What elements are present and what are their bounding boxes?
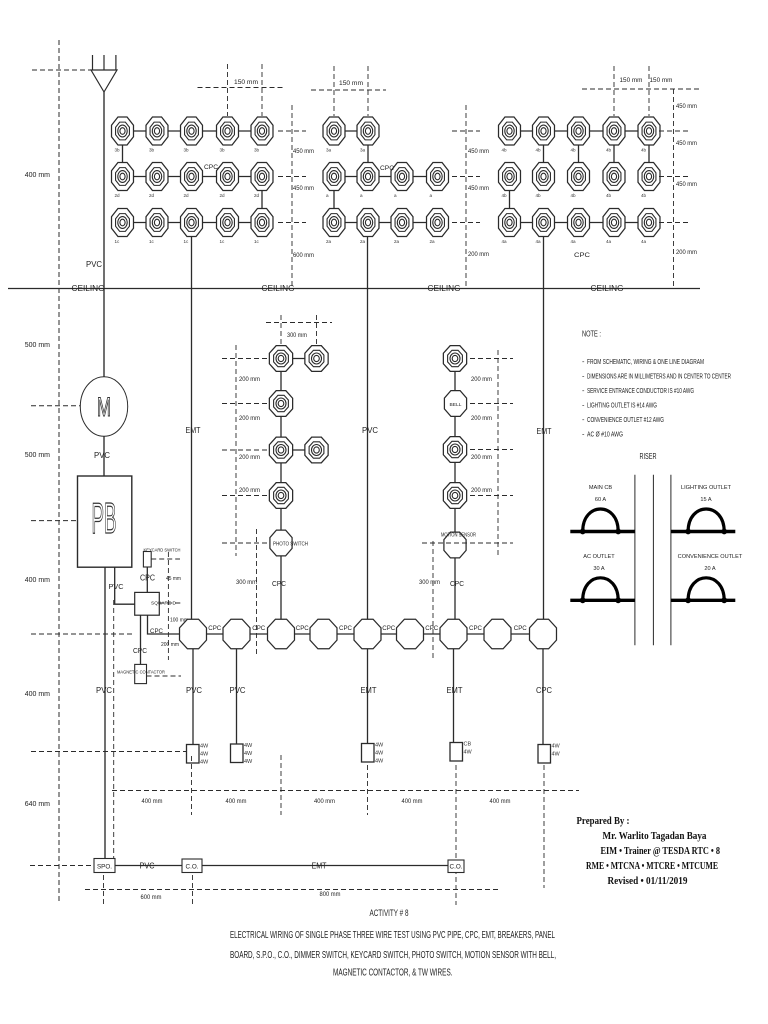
receptacle outlet R2 — [231, 743, 254, 765]
svg-text:4W: 4W — [464, 750, 473, 756]
wire motion sensor to chain — [454, 559, 456, 620]
svg-text:4a: 4a — [536, 239, 542, 244]
dashed dim vertical right of motion chain — [497, 350, 499, 556]
svg-text:CPC: CPC — [296, 626, 310, 632]
wire group3 col2 row1-row2 — [543, 131, 545, 177]
receptacle outlet R4 — [450, 742, 473, 762]
svg-text:2d: 2d — [220, 193, 226, 198]
wire junction chain — [180, 633, 543, 635]
wire group2 row2 — [334, 176, 438, 178]
dashed dim line group3 top — [582, 88, 700, 90]
svg-text:4b: 4b — [641, 148, 647, 153]
lighting outlet G1-R3C2 — [146, 209, 168, 237]
svg-text:600 mm: 600 mm — [141, 894, 162, 901]
wire disconnect to contactor — [140, 615, 142, 664]
wire group2 row3 — [334, 222, 438, 224]
wire photo switch to chain — [280, 557, 282, 620]
svg-text:450 mm: 450 mm — [293, 185, 314, 192]
svg-text:CONVENIENCE OUTLET: CONVENIENCE OUTLET — [678, 554, 743, 560]
svg-text:EMT: EMT — [186, 426, 201, 435]
svg-text:4W: 4W — [244, 743, 253, 749]
svg-text:M: M — [97, 392, 111, 422]
svg-text:a: a — [430, 193, 433, 198]
svg-text:4b: 4b — [571, 148, 577, 153]
panel board PB — [78, 476, 132, 567]
svg-text:SERVICE ENTRANCE CONDUCTOR IS: SERVICE ENTRANCE CONDUCTOR IS #10 AWG — [587, 386, 694, 395]
svg-text:a: a — [326, 193, 329, 198]
riser line 3 — [670, 475, 672, 646]
lighting outlet G3-R1C2 — [533, 117, 555, 145]
svg-text:450 mm: 450 mm — [468, 185, 489, 192]
dashed vertical below motion chain — [432, 541, 434, 660]
lighting outlet G1-R1C3 — [181, 117, 203, 145]
svg-text:300 mm: 300 mm — [236, 579, 257, 586]
keycard switch — [143, 552, 151, 568]
lighting outlet G1-R3C3 — [181, 209, 203, 237]
wire drop CPC at x=543 — [542, 649, 544, 744]
lighting outlet G3-R2C3 — [568, 163, 590, 191]
svg-text:400 mm: 400 mm — [490, 798, 511, 805]
dashed tick group2 right — [452, 176, 480, 178]
svg-text:20 A: 20 A — [704, 566, 715, 572]
lighting outlet G3-R2C2 — [533, 163, 555, 191]
bottom conduit run — [103, 865, 456, 867]
svg-text:150 mm: 150 mm — [620, 78, 643, 84]
surface box SPO — [94, 859, 115, 873]
svg-text:150 mm: 150 mm — [339, 80, 363, 87]
lighting outlet G1-R1C2 — [146, 117, 168, 145]
dashed tick contactor — [147, 675, 182, 677]
kWh meter M — [80, 377, 127, 436]
junction box J2 — [223, 619, 250, 649]
svg-text:4W: 4W — [375, 759, 384, 765]
lighting outlet G1-R1C4 — [217, 117, 239, 145]
svg-text:2d: 2d — [149, 193, 155, 198]
svg-text:400 mm: 400 mm — [25, 172, 50, 179]
dashed tick motion chain — [470, 403, 513, 405]
svg-text:450 mm: 450 mm — [676, 140, 697, 147]
svg-text:3b: 3b — [149, 148, 155, 153]
dashed dim line group2 top — [311, 89, 386, 91]
svg-text:30 A: 30 A — [593, 566, 604, 572]
lighting outlet G2-R2C3 — [391, 163, 413, 191]
lighting outlet G3-R3C2 — [533, 209, 555, 237]
svg-text:C.O.: C.O. — [186, 865, 199, 871]
dashed tick photo chain — [222, 495, 268, 497]
junction box J1 — [180, 619, 207, 649]
svg-text:2a: 2a — [394, 239, 400, 244]
svg-text:500 mm: 500 mm — [25, 452, 50, 459]
svg-text:PVC: PVC — [186, 686, 202, 695]
lighting outlet G3-R3C1 — [499, 209, 521, 237]
dashed dim vertical right of group3 — [673, 89, 675, 288]
svg-text:CEILING: CEILING — [428, 284, 461, 293]
junction box J7 — [440, 619, 467, 649]
wire keycard to disconnect — [146, 567, 148, 592]
riser circuit MAIN CB — [570, 509, 635, 534]
svg-text:2d: 2d — [254, 193, 260, 198]
branch wire PB to disconnect — [115, 567, 135, 604]
svg-text:400 mm: 400 mm — [226, 798, 247, 805]
wire drop EMT at x=367.5 — [367, 649, 369, 744]
wire drop PVC at x=236.5 — [236, 649, 238, 744]
svg-text:EMT: EMT — [447, 686, 463, 695]
svg-text:4W: 4W — [552, 744, 561, 750]
svg-text:200 mm: 200 mm — [676, 249, 697, 256]
lighting outlet G3-R1C1 — [499, 117, 521, 145]
svg-text:2d: 2d — [115, 193, 121, 198]
lighting outlet G1-R3C4 — [217, 209, 239, 237]
svg-text:a: a — [394, 193, 397, 198]
photo switch — [270, 530, 292, 556]
dashed tick — [192, 875, 194, 906]
lighting outlet G1-R3C5 — [251, 209, 273, 237]
svg-text:200 mm: 200 mm — [471, 415, 492, 422]
wire group3 row3 — [510, 222, 650, 224]
svg-text:3b: 3b — [254, 148, 260, 153]
wire group1 row1 — [123, 130, 263, 132]
svg-text:CPC: CPC — [272, 579, 287, 588]
svg-text:CPC: CPC — [133, 648, 147, 655]
riser circuit LIGHTING OUTLET — [671, 509, 735, 534]
dashed tick group3 right — [659, 130, 688, 132]
wire ceiling to meter — [103, 289, 105, 378]
receptacle outlet R5 — [538, 744, 561, 764]
wire group1 row2 — [123, 176, 263, 178]
svg-text:4W: 4W — [244, 759, 253, 765]
lighting outlet G3-R1C3 — [568, 117, 590, 145]
svg-text:150 mm: 150 mm — [234, 79, 258, 86]
svg-text:400 mm: 400 mm — [402, 798, 423, 805]
svg-text:200 mm: 200 mm — [468, 251, 489, 258]
wire meter to panel — [103, 436, 105, 476]
dashed tick at junction chain level — [31, 633, 135, 635]
motion sensor — [444, 532, 466, 558]
svg-text:4b: 4b — [502, 193, 508, 198]
wire photo chain vertical — [280, 359, 282, 530]
svg-text:MAGNETIC CONTACTOR, & TW WIRES: MAGNETIC CONTACTOR, & TW WIRES. — [333, 967, 453, 979]
svg-text:1c: 1c — [254, 239, 260, 244]
dashed vertical above group2 col1 — [333, 66, 335, 116]
svg-text:3a: 3a — [360, 148, 366, 153]
dashed tick keycard — [151, 558, 180, 560]
lighting outlet M-C — [443, 483, 466, 509]
wire disconnect to junction chain — [148, 615, 181, 634]
dashed vertical above group2 col2 — [367, 66, 369, 116]
svg-text:1c: 1c — [115, 239, 121, 244]
riser circuit CONVENIENCE OUTLET — [671, 578, 735, 603]
svg-text:CPC: CPC — [536, 686, 552, 695]
svg-text:RME • MTCNA • MTCRE • MTCUME: RME • MTCNA • MTCRE • MTCUME — [586, 861, 718, 872]
svg-text:CPC: CPC — [380, 165, 394, 172]
lighting outlet G1-R3C1 — [112, 209, 134, 237]
svg-text:CPC: CPC — [150, 628, 164, 635]
dashed dim top photo chain — [280, 315, 282, 346]
svg-text:400 mm: 400 mm — [314, 798, 335, 805]
dashed tick at meter level — [31, 405, 80, 407]
dashed tick at bottom run level — [30, 865, 94, 867]
dashed tick group2 right — [452, 130, 480, 132]
dashed tick motion chain — [470, 495, 513, 497]
dashed tick — [191, 756, 193, 815]
dashed dim vertical left of photo chain — [235, 345, 237, 556]
svg-text:CPC: CPC — [425, 626, 439, 632]
svg-text:4b: 4b — [606, 193, 612, 198]
lighting outlet G2-R1C1 — [323, 117, 345, 145]
svg-text:MOTION SENSOR: MOTION SENSOR — [441, 533, 476, 539]
dashed dim vertical right of group1 — [291, 105, 293, 288]
svg-text:3b: 3b — [184, 148, 190, 153]
lighting outlet G2-R3C3 — [391, 209, 413, 237]
svg-text:450 mm: 450 mm — [676, 181, 697, 188]
svg-text:PVC: PVC — [86, 260, 102, 269]
dashed tick — [367, 765, 369, 815]
dashed tick group1 right — [278, 176, 306, 178]
wire group3 col3 row1-row2 — [578, 131, 580, 177]
left reference dashed vertical — [58, 40, 60, 903]
wire group3 row1 — [510, 130, 650, 132]
dashed vertical above group3 col4 — [613, 66, 615, 116]
wire group3 col5 row1-row2 — [648, 131, 650, 177]
svg-text:200 mm: 200 mm — [161, 642, 179, 648]
lighting outlet G3-R2C4 — [603, 163, 625, 191]
wire group1 row3 — [123, 222, 263, 224]
svg-text:PVC: PVC — [94, 451, 110, 460]
lighting outlet G2-R3C2 — [357, 209, 379, 237]
lighting outlet M-B — [443, 437, 466, 463]
lighting outlet G3-R2C1 — [499, 163, 521, 191]
riser line 1 — [634, 475, 636, 646]
lighting outlet G3-R3C4 — [603, 209, 625, 237]
svg-text:CONVENIENCE OUTLET #12 AWG: CONVENIENCE OUTLET #12 AWG — [587, 415, 664, 424]
svg-text:4a: 4a — [606, 239, 612, 244]
svg-text:4b: 4b — [641, 193, 647, 198]
lighting outlet G2-R3C1 — [323, 209, 345, 237]
svg-text:4a: 4a — [641, 239, 647, 244]
svg-text:CPC: CPC — [204, 164, 218, 171]
svg-text:4b: 4b — [536, 193, 542, 198]
dashed dim vertical right of group2 — [465, 105, 467, 288]
wire group2 row1 — [334, 130, 368, 132]
lighting outlet G3-R1C4 — [603, 117, 625, 145]
weatherhead service entrance — [91, 55, 117, 92]
svg-text:150 mm: 150 mm — [650, 78, 673, 84]
lighting outlet G1-R1C1 — [112, 117, 134, 145]
svg-text:450 mm: 450 mm — [293, 148, 314, 155]
svg-text:EMT: EMT — [312, 862, 327, 871]
svg-text:a: a — [360, 193, 363, 198]
svg-text:500 mm: 500 mm — [25, 342, 50, 349]
dashed tick — [543, 765, 545, 888]
dashed tick — [103, 875, 105, 906]
wire group3 homerun EMT — [543, 223, 545, 620]
svg-text:EMT: EMT — [361, 686, 377, 695]
svg-text:4W: 4W — [375, 751, 384, 757]
lighting outlet G1-R2C1 — [112, 163, 134, 191]
svg-text:EIM • Trainer @ TESDA RTC • 8: EIM • Trainer @ TESDA RTC • 8 — [601, 846, 721, 857]
junction box J6 — [397, 619, 424, 649]
svg-text:PVC: PVC — [140, 862, 155, 871]
svg-text:1c: 1c — [149, 239, 155, 244]
svg-text:200 mm: 200 mm — [471, 376, 492, 383]
disconnect switch box — [135, 592, 160, 615]
surface box CO — [448, 860, 464, 873]
dashed tick motion sensor — [422, 542, 513, 544]
dashed tick at receptacle level — [31, 751, 186, 753]
dashed vertical above group1 col5 — [261, 64, 263, 116]
dashed tick motion chain — [470, 358, 513, 360]
svg-text:PB: PB — [92, 494, 117, 543]
dashed tick at panel board level — [31, 520, 77, 522]
svg-text:800 mm: 800 mm — [320, 891, 341, 898]
svg-text:AC Ø #10 AWG: AC Ø #10 AWG — [587, 430, 623, 439]
svg-text:1c: 1c — [220, 239, 226, 244]
svg-text:2a: 2a — [360, 239, 366, 244]
dashed tick photo chain — [222, 542, 268, 544]
svg-text:4b: 4b — [606, 148, 612, 153]
svg-text:LIGHTING OUTLET: LIGHTING OUTLET — [681, 485, 732, 491]
main feeder wire from PB down — [104, 567, 106, 865]
svg-text:4W: 4W — [200, 744, 209, 750]
svg-text:CPC: CPC — [382, 626, 396, 632]
lighting outlet G3-R1C5 — [638, 117, 660, 145]
svg-text:PVC: PVC — [230, 686, 246, 695]
svg-text:KEYCARD SWITCH: KEYCARD SWITCH — [144, 548, 181, 553]
bell — [444, 391, 466, 417]
lighting outlet G2-R2C2 — [357, 163, 379, 191]
svg-text:4W: 4W — [552, 752, 561, 758]
dashed tick group1 right — [278, 130, 306, 132]
svg-text:LIGHTING OUTLET IS #14 AWG: LIGHTING OUTLET IS #14 AWG — [587, 401, 657, 410]
dashed tick at weatherhead level — [32, 69, 92, 71]
svg-text:4W: 4W — [244, 751, 253, 757]
dashed vertical above group3 col5 — [648, 66, 650, 116]
lighting outlet P-B — [269, 391, 292, 417]
junction box J3 — [268, 619, 295, 649]
dashed vertical near keycard — [167, 552, 169, 660]
svg-text:CEILING: CEILING — [591, 284, 624, 293]
wire group3 col4 row1-row2 — [613, 131, 615, 177]
lighting outlet M-A — [443, 346, 466, 372]
svg-text:2d: 2d — [184, 193, 190, 198]
dashed vertical above group1 col4 — [227, 64, 229, 116]
svg-text:PVC: PVC — [96, 686, 112, 695]
dashed tick photo chain — [222, 449, 268, 451]
svg-text:RISER: RISER — [640, 452, 657, 461]
dashed tick photo chain — [222, 403, 268, 405]
svg-text:ACTIVITY # 8: ACTIVITY # 8 — [370, 908, 409, 919]
svg-text:200 mm: 200 mm — [471, 487, 492, 494]
svg-text:4a: 4a — [502, 239, 508, 244]
junction box J5 — [354, 619, 381, 649]
svg-text:Revised • 01/11/2019: Revised • 01/11/2019 — [608, 876, 688, 887]
svg-text:4W: 4W — [375, 743, 384, 749]
lighting outlet G1-R1C5 — [251, 117, 273, 145]
wire group2 col2 row1-row2 — [367, 131, 369, 177]
dashed tick group2 right — [452, 222, 480, 224]
svg-text:1c: 1c — [184, 239, 190, 244]
wire motion chain vertical — [454, 359, 456, 532]
svg-text:PVC: PVC — [109, 582, 125, 591]
lighting outlet G1-R2C3 — [181, 163, 203, 191]
svg-text:4W: 4W — [200, 760, 209, 766]
receptacle outlet R3 — [362, 743, 385, 765]
svg-text:600 mm: 600 mm — [293, 252, 314, 259]
lighting outlet P-E — [269, 483, 292, 509]
dashed tick photo chain — [222, 358, 268, 360]
dashed dim line group1 top — [198, 87, 286, 89]
wire group1 homerun EMT — [191, 223, 193, 620]
riser line 2 — [652, 475, 654, 646]
svg-text:300 mm: 300 mm — [287, 332, 307, 339]
svg-text:NOTE :: NOTE : — [582, 330, 601, 339]
junction box J4 — [310, 619, 337, 649]
svg-text:200 mm: 200 mm — [471, 454, 492, 461]
wire group1 col1 row1-row2 — [122, 131, 124, 177]
svg-text:Mr. Warlito Tagadan Baya: Mr. Warlito Tagadan Baya — [603, 831, 707, 842]
wire group2 col1 row2-row3 — [333, 177, 335, 223]
dashed tick — [455, 765, 457, 905]
junction box J8 — [484, 619, 511, 649]
svg-text:4b: 4b — [571, 193, 577, 198]
riser circuit AC OUTLET — [570, 578, 635, 603]
surface box CO — [182, 859, 202, 873]
svg-text:200 mm: 200 mm — [239, 376, 260, 383]
lighting outlet G3-R3C5 — [638, 209, 660, 237]
ceiling line — [8, 288, 700, 290]
svg-text:60 A: 60 A — [595, 497, 606, 503]
svg-text:200 mm: 200 mm — [239, 487, 260, 494]
svg-text:15 A: 15 A — [700, 497, 711, 503]
dashed tick disconnect — [159, 602, 182, 604]
wire photo chain C-D — [281, 449, 317, 451]
lighting outlet G2-R2C4 — [427, 163, 449, 191]
junction box J9 — [530, 619, 557, 649]
lighting outlet P-A2 — [305, 346, 328, 372]
svg-text:3b: 3b — [220, 148, 226, 153]
lighting outlet P-C — [269, 437, 292, 463]
svg-text:BELL: BELL — [450, 402, 462, 408]
dashed tick group1 right — [278, 222, 306, 224]
svg-text:400 mm: 400 mm — [142, 798, 163, 805]
svg-text:4b: 4b — [536, 148, 542, 153]
wire group2 homerun PVC — [367, 223, 369, 620]
wire photo chain A1-A2 — [281, 358, 317, 360]
wire drop PVC at x=193 — [192, 649, 194, 744]
svg-text:CPC: CPC — [514, 626, 528, 632]
wire group3 col1 row2-row3 — [509, 177, 511, 223]
dashed vertical below photo chain — [256, 529, 258, 655]
svg-text:PHOTO SWITCH: PHOTO SWITCH — [273, 542, 308, 548]
svg-text:C.O.: C.O. — [450, 865, 463, 871]
dashed tick group3 right — [659, 222, 688, 224]
svg-text:CPC: CPC — [450, 579, 465, 588]
svg-text:Prepared By :: Prepared By : — [577, 816, 630, 827]
magnetic contactor — [135, 664, 147, 683]
svg-text:CPC: CPC — [252, 626, 266, 632]
lighting outlet G2-R3C4 — [427, 209, 449, 237]
svg-text:FROM SCHEMATIC, WIRING & ONE L: FROM SCHEMATIC, WIRING & ONE LINE DIAGRA… — [587, 357, 704, 366]
svg-text:4a: 4a — [571, 239, 577, 244]
lighting outlet G1-R2C4 — [217, 163, 239, 191]
lighting outlet G1-R2C2 — [146, 163, 168, 191]
svg-text:EMT: EMT — [537, 427, 552, 436]
svg-text:3a: 3a — [326, 148, 332, 153]
dashed tick — [280, 755, 282, 815]
svg-text:MAGNETIC CONTACTOR: MAGNETIC CONTACTOR — [117, 670, 166, 675]
svg-text:4W: 4W — [200, 752, 209, 758]
svg-text:450 mm: 450 mm — [676, 103, 697, 110]
